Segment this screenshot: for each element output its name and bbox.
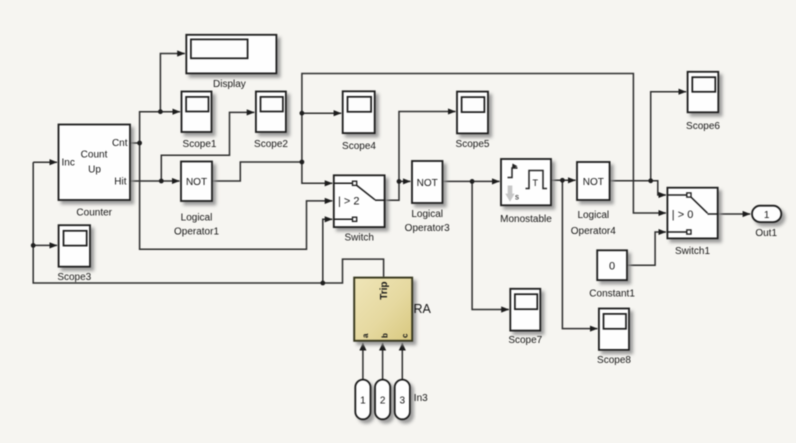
wire net Switch output branch to Scope5	[399, 112, 456, 182]
wire net feedback: branch up to Switch input3	[323, 219, 333, 283]
junction dot Switch in3 branch	[320, 281, 325, 286]
block Display	[186, 35, 276, 90]
svg-text:Switch1: Switch1	[675, 246, 710, 257]
svg-text:T: T	[533, 178, 539, 188]
svg-text:| > 2: | > 2	[338, 195, 360, 207]
wire net NOT3 output to Monostable	[443, 180, 500, 182]
svg-text:NOT: NOT	[417, 178, 438, 189]
wire net Hit: into Logical Operator1	[130, 180, 180, 182]
svg-text:RA: RA	[414, 302, 432, 316]
svg-text:a: a	[361, 333, 370, 338]
svg-text:Logical: Logical	[577, 210, 609, 221]
block Scope6	[686, 72, 720, 132]
svg-text:Cnt: Cnt	[112, 138, 128, 149]
svg-text:s: s	[515, 193, 519, 202]
wire net Cnt: branch up to Display	[160, 54, 184, 112]
block Scope7	[508, 289, 542, 346]
junction dot NOT4 branch	[648, 178, 653, 183]
svg-text:Display: Display	[213, 79, 246, 90]
svg-text:Scope6: Scope6	[686, 121, 720, 132]
wire In1 oval to RA port a	[362, 343, 364, 380]
wire net NOT1: long top run to Switch1 control input	[302, 74, 666, 214]
output port Out1	[752, 206, 781, 239]
block Scope4	[342, 91, 376, 152]
input port In3 oval	[395, 380, 428, 420]
wire In2 oval to RA port b	[382, 343, 384, 380]
svg-text:Counter: Counter	[76, 208, 112, 219]
block Scope5	[456, 92, 490, 150]
svg-text:Up: Up	[88, 165, 101, 176]
svg-text:Constant1: Constant1	[589, 288, 635, 299]
wire net Cnt: stub from Counter Cnt port	[130, 142, 140, 144]
svg-text:1: 1	[360, 395, 366, 406]
svg-text:Scope1: Scope1	[183, 139, 217, 150]
junction dot NOT3 branch	[470, 179, 475, 184]
wire net feedback: branch into Scope3	[33, 244, 57, 246]
svg-text:Operator3: Operator3	[405, 223, 450, 234]
block Scope2	[254, 92, 288, 151]
junction dot Switch-out branch	[397, 179, 402, 184]
wire net Hit: branch up to Scope2	[161, 112, 254, 181]
svg-text:Hit: Hit	[114, 177, 126, 188]
svg-text:Scope5: Scope5	[456, 139, 490, 150]
svg-text:Operator4: Operator4	[571, 226, 616, 237]
svg-text:NOT: NOT	[186, 177, 207, 188]
block Scope8	[597, 309, 631, 367]
wire net Cnt: up branch to Scope1	[140, 112, 180, 143]
wire net NOT4 branch up to Scope6	[651, 92, 686, 181]
junction dot Scope3 branch	[31, 243, 36, 248]
input port In2 oval	[375, 380, 390, 420]
svg-text:Scope4: Scope4	[342, 141, 376, 152]
block NOT gate Logical Operator4	[571, 162, 616, 237]
svg-text:Operator1: Operator1	[174, 227, 219, 238]
block Monostable	[500, 159, 552, 225]
junction dot Monostable branch	[560, 178, 565, 183]
svg-text:Logical: Logical	[411, 209, 443, 220]
svg-text:Logical: Logical	[181, 212, 213, 223]
junction dot Hit branch	[159, 179, 164, 184]
svg-text:Inc: Inc	[62, 158, 75, 169]
wire In3 oval to RA port c	[401, 343, 403, 380]
svg-text:0: 0	[609, 260, 615, 272]
svg-text:Count: Count	[81, 150, 108, 161]
block Counter	[59, 125, 131, 219]
svg-text:Switch: Switch	[344, 232, 373, 243]
junction dot Cnt stub	[137, 141, 142, 146]
wire net feedback: into Counter Inc	[33, 161, 57, 163]
svg-text:NOT: NOT	[583, 177, 604, 188]
wire net Constant1 to Switch1 input3	[627, 232, 666, 265]
svg-text:In3: In3	[414, 393, 428, 404]
svg-text:c: c	[400, 333, 409, 338]
svg-text:Scope8: Scope8	[597, 355, 631, 366]
wire net NOT1: into Switch input1	[302, 162, 332, 183]
junction dot Display branch	[158, 109, 163, 114]
junction dot NOT1 net	[300, 160, 305, 165]
block Switch	[334, 175, 385, 243]
svg-text:Scope7: Scope7	[508, 335, 542, 346]
junction dot Scope4 branch	[300, 111, 305, 116]
wire net NOT3 branch down to Scope7	[472, 181, 509, 309]
svg-text:1: 1	[764, 210, 770, 221]
wire net NOT1 output riser	[212, 162, 302, 181]
wire net NOT4 output to Switch1 input1	[610, 181, 666, 195]
wire net feedback: long bottom run to RA trigger	[33, 162, 383, 283]
input port In1 oval	[355, 380, 370, 420]
wire net Monostable output to Logical Operator4	[551, 179, 576, 181]
block Constant1	[589, 250, 635, 299]
svg-text:Scope2: Scope2	[254, 139, 288, 150]
block RA triggered subsystem	[354, 278, 431, 341]
block NOT gate Logical Operator3	[405, 161, 450, 234]
svg-text:Scope3: Scope3	[57, 272, 91, 283]
svg-text:| > 0: | > 0	[672, 209, 694, 221]
svg-text:b: b	[381, 333, 390, 338]
svg-text:2: 2	[380, 395, 386, 406]
wire net Switch output to Logical Operator3	[385, 181, 411, 200]
svg-text:3: 3	[400, 395, 406, 406]
block Switch1	[667, 188, 717, 258]
wire net Monostable branch down to Scope8	[562, 180, 597, 328]
svg-text:Monostable: Monostable	[500, 214, 552, 225]
block Scope3	[57, 225, 91, 283]
block NOT gate U1 Logical Operator1	[174, 162, 219, 238]
block Scope1	[182, 92, 217, 151]
wire net NOT1: branch to Scope4	[302, 112, 341, 114]
svg-text:Out1: Out1	[755, 228, 777, 239]
wire net Cnt: down feedback to Switch threshold input	[140, 143, 333, 249]
wire net Switch1 output to Out1	[718, 213, 751, 215]
svg-text:Trip: Trip	[379, 281, 390, 299]
